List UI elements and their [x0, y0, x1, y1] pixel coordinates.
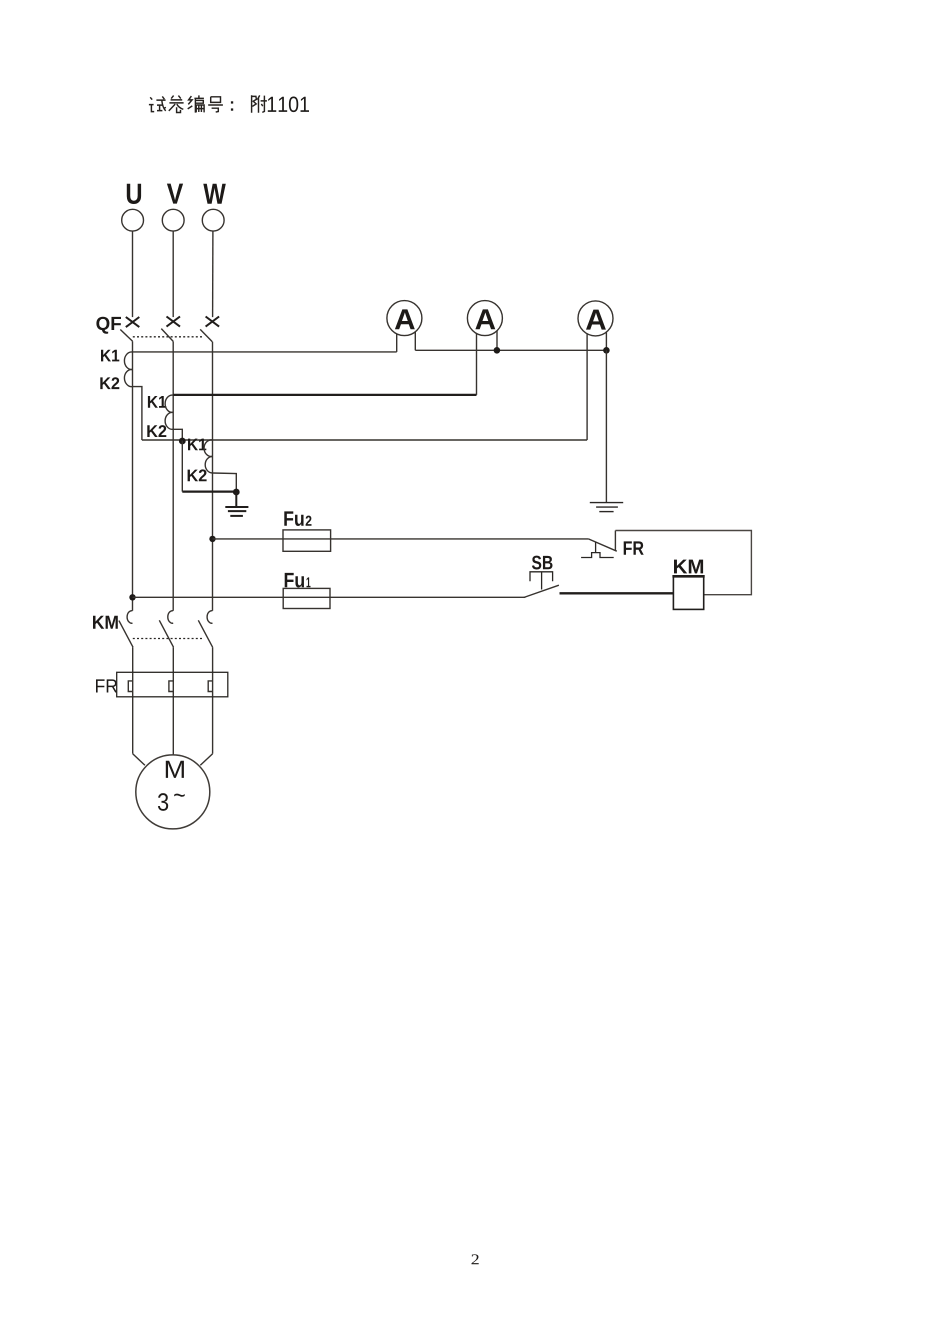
wire phase V main [172, 341, 174, 610]
CT K2 phase U label [100, 377, 119, 389]
junction node A3 return [603, 347, 610, 354]
CT K2 phase U winding [124, 369, 132, 386]
junction node Fu2 tap on phase W [209, 536, 215, 542]
wire V lead [172, 231, 174, 317]
breaker QF pole 2 terminal cross [167, 317, 181, 327]
terminal U [122, 184, 144, 231]
thermal relay FR box [117, 672, 228, 697]
breaker QF label [96, 317, 121, 334]
wire SB to KM coil thick [560, 592, 674, 594]
ground (CT secondary) [225, 492, 248, 516]
contactor coil KM body [673, 576, 703, 610]
contactor KM pole 2 contact [168, 611, 173, 624]
CT K1 phase V winding [165, 395, 173, 412]
wire ammeter bus [415, 349, 606, 351]
ground (ammeter bus) [590, 503, 623, 512]
wire motor lead U [133, 754, 145, 766]
wire U lead [132, 231, 134, 317]
header text 附 (fu) [252, 95, 267, 113]
fuse Fu1 label [285, 573, 304, 588]
breaker QF pole 1 terminal cross [126, 317, 140, 327]
wire phase V below KM [172, 647, 174, 755]
thermal relay heater pole 1 [128, 681, 132, 692]
ammeter A2 [467, 301, 502, 395]
breaker QF pole 1 blade [120, 330, 132, 342]
header text 卷 (juan) [169, 96, 184, 113]
wire W lead [212, 231, 214, 317]
junction node A2 return [494, 347, 501, 354]
wire K2-W step to ground bus [213, 473, 237, 492]
CT K1 phase W label [188, 439, 206, 451]
page number [472, 1254, 479, 1264]
wire K1-U to ammeter A1 [133, 351, 397, 353]
CT K2 phase V winding [165, 412, 173, 429]
CT K2 phase W label [188, 469, 207, 481]
terminal V [162, 184, 184, 231]
fuse Fu2 label [284, 511, 303, 526]
pushbutton SB label [532, 556, 553, 570]
contactor KM pole 3 contact [207, 611, 212, 624]
pushbutton SB blade [524, 585, 559, 597]
wire K2-V step down [173, 429, 182, 440]
wire A3 return to ground [605, 350, 607, 502]
FR NC contact fixed lead [614, 531, 616, 551]
wire K2-U step down [133, 387, 142, 440]
CT K1 phase V label [148, 396, 166, 408]
junction node at ground tap [233, 489, 240, 496]
wire control loop top [615, 531, 751, 595]
wire phase W below KM [212, 647, 214, 754]
thermal relay FR label [96, 679, 117, 692]
header text 试 (shi) [149, 96, 166, 111]
wire phase U main [132, 341, 134, 610]
wire phase U below KM [132, 647, 134, 754]
contactor coil KM label [674, 560, 703, 574]
wire Fu1 branch [133, 596, 526, 598]
ammeter A3 [578, 301, 613, 440]
wire ground bus thick [182, 490, 236, 492]
wire K2 bus to ammeter A3 [142, 439, 587, 441]
CT K1 phase U label [101, 350, 119, 362]
breaker QF pole 2 blade [161, 329, 173, 342]
junction node at K1-W tap [179, 438, 186, 445]
contactor KM main contacts label [93, 616, 118, 629]
fuse Fu1 body [283, 588, 330, 608]
motor M 3~ [136, 755, 210, 829]
breaker QF pole 3 blade [200, 329, 212, 341]
FR NC contact actuator [581, 542, 614, 558]
breaker QF linkage dotted [133, 336, 204, 338]
CT K2 phase W winding [205, 456, 212, 473]
junction node Fu1 tap on phase U [129, 594, 135, 600]
fuse Fu2 body [283, 530, 331, 551]
CT K2 phase V label [147, 425, 166, 437]
contactor KM linkage dotted [133, 638, 203, 640]
contactor KM pole 1 contact [127, 611, 132, 624]
thermal relay heater pole 3 [208, 681, 212, 692]
FR NC contact blade [588, 539, 616, 551]
ammeter A1 [387, 301, 422, 352]
wire phase W main [212, 342, 214, 611]
breaker QF pole 3 terminal cross [206, 317, 220, 327]
terminal W [202, 184, 226, 231]
wire Fu2 branch [213, 538, 589, 540]
header text 号 (hao) [208, 97, 223, 112]
pushbutton SB actuator [530, 572, 553, 590]
header text ：fullwidth colon [231, 101, 233, 110]
header text 编 (bian) [188, 95, 204, 112]
CT K1 phase U winding [124, 352, 132, 370]
CT K1 phase W winding [204, 440, 212, 457]
wire K1-V to ammeter A2 thick [173, 394, 476, 396]
wire junction drop to ground bus [181, 441, 183, 492]
thermal relay heater pole 2 [169, 681, 173, 692]
wire motor lead W [200, 754, 212, 766]
FR contact label [624, 541, 644, 554]
header text 1101 [268, 97, 309, 113]
